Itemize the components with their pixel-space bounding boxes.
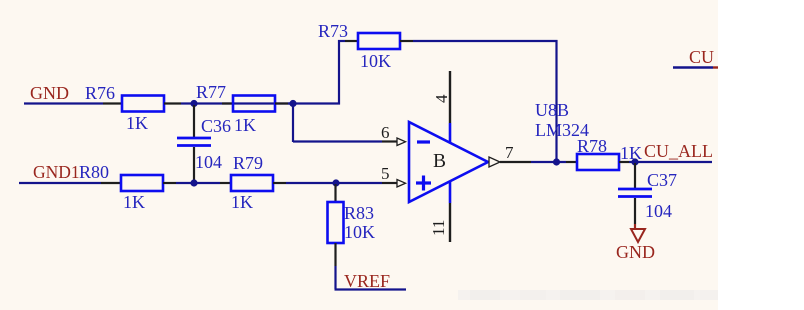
- svg-text:GND1: GND1: [33, 162, 80, 182]
- svg-text:C36: C36: [201, 116, 231, 136]
- wire VREF vertical: [334, 266, 336, 289]
- svg-text:GND: GND: [616, 242, 655, 262]
- wire row1 right: [288, 102, 340, 104]
- svg-text:R73: R73: [318, 21, 348, 41]
- wire row1 mid: [181, 102, 293, 104]
- pin lead R73 left: [345, 40, 358, 42]
- pin lead C37 bottom: [634, 198, 636, 224]
- pin lead C36 bottom: [193, 147, 195, 183]
- pin lead R83 bottom: [334, 243, 336, 266]
- pin 6 arrow: [397, 138, 406, 146]
- wire riser to R73: [338, 40, 340, 105]
- svg-text:1K: 1K: [234, 115, 256, 135]
- wire pin6 horizontal: [293, 140, 382, 142]
- pin lead R80 right: [163, 182, 176, 184]
- svg-text:R80: R80: [79, 162, 109, 182]
- watermark: [458, 290, 718, 300]
- GND power symbol arrow: [631, 229, 645, 242]
- svg-text:CU_ALL: CU_ALL: [644, 141, 713, 161]
- svg-text:1K: 1K: [620, 143, 642, 163]
- pin lead R79 right: [273, 182, 286, 184]
- op-amp U8B: [409, 122, 488, 202]
- svg-text:104: 104: [645, 201, 672, 221]
- pin lead R79 left: [220, 182, 231, 184]
- wire VREF horizontal: [335, 288, 407, 290]
- pin 11 inner stub: [449, 182, 452, 203]
- pin 7 output arrow: [489, 157, 500, 167]
- svg-text:5: 5: [381, 164, 390, 183]
- resistor R76: [122, 96, 164, 112]
- pin lead R76 right: [164, 102, 181, 104]
- capacitor C36: [177, 138, 211, 146]
- node junction row1-pin6: [289, 100, 296, 107]
- svg-text:10K: 10K: [360, 51, 391, 71]
- svg-text:1K: 1K: [231, 192, 253, 212]
- wire CU red tip: [713, 66, 718, 68]
- node junction row2-R83: [332, 179, 339, 186]
- svg-text:4: 4: [432, 94, 451, 103]
- resistor R80: [121, 175, 163, 191]
- svg-text:6: 6: [381, 123, 390, 142]
- svg-text:7: 7: [505, 143, 514, 162]
- node junction row1-C36: [190, 100, 197, 107]
- pin 4 lead: [449, 71, 451, 123]
- svg-text:10K: 10K: [344, 222, 375, 242]
- svg-text:GND: GND: [30, 83, 69, 103]
- svg-text:C37: C37: [647, 170, 677, 190]
- svg-text:1K: 1K: [123, 192, 145, 212]
- GND power lead: [634, 224, 636, 229]
- svg-text:CU: CU: [689, 47, 714, 67]
- pin lead C37 top: [634, 163, 636, 189]
- svg-text:R76: R76: [85, 83, 115, 103]
- svg-text:R83: R83: [344, 203, 374, 223]
- pin 6 lead: [382, 140, 397, 142]
- wire to CU_ALL: [629, 161, 712, 163]
- wire pin6 vertical: [292, 104, 294, 143]
- svg-text:104: 104: [195, 152, 222, 172]
- resistor R78: [577, 154, 619, 170]
- pin lead R78 left: [566, 161, 577, 163]
- pin lead R73 right: [400, 40, 413, 42]
- resistor R77: [233, 96, 275, 112]
- pin lead R83 top: [334, 184, 336, 202]
- svg-text:B: B: [433, 151, 446, 172]
- pin 4 inner stub: [449, 123, 452, 143]
- wire row2 left: [19, 182, 101, 184]
- pin lead C36 top: [193, 105, 195, 138]
- op-amp minus input mark: [417, 140, 430, 143]
- resistor R83: [328, 202, 344, 243]
- resistor R79: [231, 175, 273, 191]
- wire row2 mid: [176, 182, 220, 184]
- wire R73 to output riser: [413, 40, 558, 42]
- svg-text:1K: 1K: [126, 113, 148, 133]
- wire output: [531, 161, 566, 163]
- wire R73 left: [338, 40, 345, 42]
- pin 11 lead: [449, 203, 451, 242]
- wire output riser: [555, 40, 557, 162]
- pin lead R80 left: [101, 182, 121, 184]
- pin lead R78 right: [619, 161, 629, 163]
- pin lead R76 left: [103, 102, 122, 104]
- node junction C37: [631, 158, 638, 165]
- svg-text:11: 11: [429, 220, 448, 236]
- pin 7 lead: [500, 161, 531, 163]
- resistor R73: [358, 33, 400, 49]
- svg-text:U8B: U8B: [535, 100, 569, 120]
- svg-text:R79: R79: [233, 153, 263, 173]
- wire CU: [673, 66, 713, 68]
- node junction row2-C36: [190, 179, 197, 186]
- wire row2 right: [286, 182, 382, 184]
- capacitor C37: [618, 189, 652, 197]
- pin lead R77 left: [222, 102, 233, 104]
- pin lead R77 right: [275, 102, 288, 104]
- svg-text:R77: R77: [196, 82, 226, 102]
- wire row1 left: [24, 102, 103, 104]
- node junction output: [553, 158, 560, 165]
- pin 5 arrow: [397, 180, 406, 188]
- svg-text:VREF: VREF: [344, 271, 390, 291]
- op-amp plus input mark: [416, 176, 431, 191]
- pin 5 lead: [382, 182, 397, 184]
